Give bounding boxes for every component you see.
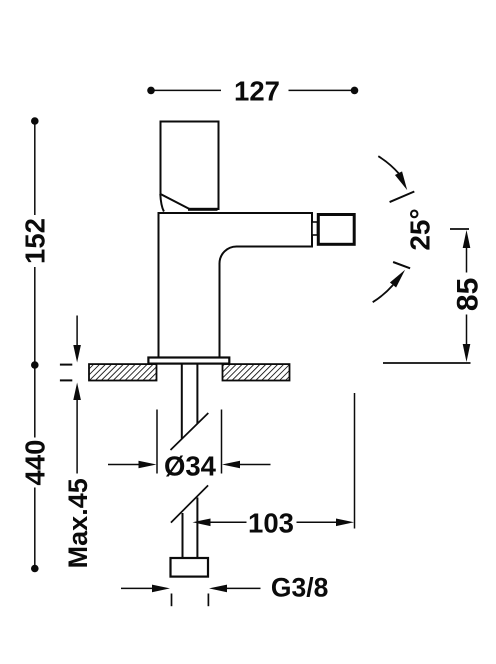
- svg-text:152: 152: [20, 218, 51, 264]
- svg-text:25°: 25°: [405, 208, 436, 250]
- svg-text:127: 127: [234, 76, 280, 107]
- svg-text:G3/8: G3/8: [271, 573, 328, 603]
- svg-text:85: 85: [452, 278, 485, 311]
- svg-text:Max.45: Max.45: [63, 478, 93, 568]
- svg-text:103: 103: [248, 507, 294, 538]
- svg-text:Ø34: Ø34: [164, 450, 217, 481]
- svg-text:440: 440: [19, 440, 50, 486]
